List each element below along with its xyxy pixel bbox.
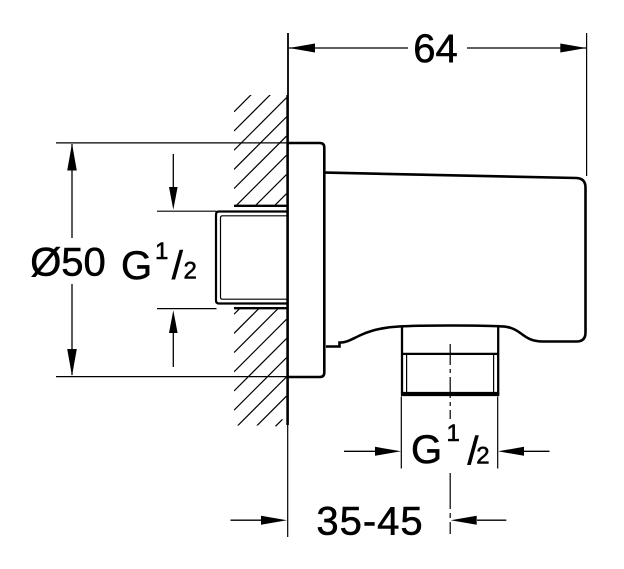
svg-text:35-45: 35-45 xyxy=(316,500,423,544)
svg-text:G: G xyxy=(121,244,152,288)
svg-text:G: G xyxy=(411,428,442,472)
svg-text:/: / xyxy=(172,244,184,288)
svg-text:2: 2 xyxy=(476,442,489,469)
svg-text:2: 2 xyxy=(184,257,197,284)
svg-text:64: 64 xyxy=(413,27,458,71)
svg-text:1: 1 xyxy=(155,238,168,265)
svg-text:1: 1 xyxy=(447,420,460,447)
svg-text:Ø50: Ø50 xyxy=(30,241,106,285)
